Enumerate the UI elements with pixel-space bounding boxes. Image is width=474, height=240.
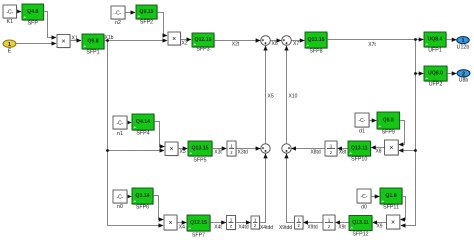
constant d1	[355, 113, 370, 135]
wire X8t	[338, 148, 348, 150]
svg-text:X8t: X8t	[339, 150, 347, 156]
svg-text:SFP: SFP	[28, 21, 39, 27]
svg-text:Q13.11: Q13.11	[351, 146, 368, 152]
junction node 1	[106, 39, 109, 42]
svg-text:X2t: X2t	[232, 42, 240, 48]
wire n0 to SFP6	[127, 196, 131, 198]
wire X4td	[236, 222, 251, 224]
wire SFP11 to X9 multiplier	[400, 197, 405, 220]
svg-text:1: 1	[298, 217, 301, 222]
svg-text:SFP10: SFP10	[351, 157, 367, 163]
wire X7t	[327, 39, 423, 41]
svg-text:-C-: -C-	[359, 118, 366, 124]
wire X9td	[303, 222, 323, 224]
svg-text:n0: n0	[117, 204, 123, 210]
fixed-point block SFP8	[305, 32, 328, 55]
svg-text:SFP5: SFP5	[193, 158, 206, 164]
sum junction S1	[261, 144, 270, 153]
svg-text:n2: n2	[115, 20, 121, 26]
svg-text:X9t: X9t	[338, 225, 346, 231]
svg-text:X5: X5	[268, 94, 274, 100]
svg-text:X3t: X3t	[214, 150, 222, 156]
svg-text:1: 1	[254, 217, 257, 222]
multiplier X8 product block	[385, 140, 399, 156]
wire X4	[177, 222, 186, 224]
svg-text:SFP12: SFP12	[352, 232, 368, 238]
svg-text:SFP7: SFP7	[192, 233, 205, 239]
wire E to X1 multiplier	[16, 43, 56, 45]
svg-text:×: ×	[391, 219, 395, 226]
wire bus to UFP2	[416, 73, 424, 75]
svg-text:Q9.8: Q9.8	[87, 39, 98, 45]
svg-text:SFP11: SFP11	[383, 205, 399, 211]
svg-text:K1: K1	[7, 19, 14, 25]
svg-text:SFP2: SFP2	[140, 20, 153, 26]
fixed-point block SFP6	[132, 188, 154, 211]
svg-text:×: ×	[389, 145, 393, 152]
fixed-point block SFP2	[136, 5, 158, 26]
svg-text:-C-: -C-	[117, 194, 124, 200]
svg-text:X8: X8	[375, 149, 381, 155]
wire SFP9 to X8 multiplier	[399, 121, 405, 145]
wire bus to X3 multiplier	[108, 150, 165, 152]
fixed-point block SFP3	[192, 33, 215, 53]
svg-text:X4tdd: X4tdd	[260, 225, 273, 231]
outport U12b oval	[457, 37, 470, 51]
constant K1	[3, 5, 17, 25]
svg-text:UQ8.4: UQ8.4	[428, 37, 443, 43]
fixed-point block SFP4	[132, 114, 155, 137]
constant d0	[357, 189, 372, 211]
svg-text:d1: d1	[359, 129, 365, 135]
multiplier X3 product block	[165, 142, 179, 156]
svg-text:1: 1	[230, 143, 233, 148]
wire X3	[178, 148, 187, 150]
svg-text:Q9.15: Q9.15	[139, 9, 153, 15]
wire K1 to SFP	[17, 11, 22, 13]
wire X5	[265, 46, 267, 144]
wire X7 to SFP8	[291, 40, 304, 42]
wire d0 to SFP11	[371, 196, 379, 198]
svg-text:Q3.14: Q3.14	[135, 193, 149, 199]
multiplier X1 product block	[57, 35, 71, 49]
wire SFP to X1 multiplier	[44, 12, 57, 38]
svg-text:SFP9: SFP9	[382, 130, 395, 136]
junction node 2	[106, 149, 109, 152]
wire X1	[70, 40, 81, 42]
unit delay 1/z D9b	[295, 216, 304, 230]
wire SFP4 to X3 multiplier	[154, 122, 164, 147]
wire SFP2 to X2 multiplier	[157, 13, 167, 36]
fixed-point block UFP2	[424, 66, 448, 88]
svg-text:n1: n1	[117, 131, 123, 137]
junction node 3	[414, 38, 417, 41]
svg-text:×: ×	[169, 146, 173, 153]
constant n1	[113, 116, 128, 137]
svg-text:X1: X1	[72, 35, 78, 41]
wire X9	[373, 222, 387, 224]
svg-text:X4t: X4t	[214, 225, 222, 231]
svg-text:1: 1	[328, 217, 331, 222]
svg-text:SFP6: SFP6	[136, 205, 149, 211]
svg-text:SFP8: SFP8	[309, 49, 322, 55]
svg-text:1: 1	[8, 42, 11, 48]
svg-text:Q13.15: Q13.15	[307, 37, 324, 43]
wire X4t	[210, 222, 226, 224]
fixed-point block SFP7	[187, 215, 211, 239]
svg-text:X2: X2	[182, 40, 188, 46]
svg-text:SFP3: SFP3	[196, 47, 209, 53]
wire bus to X8 multiplier	[399, 150, 416, 152]
wire n2 to SFP2	[125, 12, 135, 14]
wire X10	[286, 46, 288, 144]
svg-text:X10: X10	[289, 94, 298, 100]
svg-text:1: 1	[230, 217, 233, 222]
svg-text:UFP2: UFP2	[429, 82, 443, 88]
junction node 4	[414, 72, 417, 75]
wire UFP1 to U12b	[446, 39, 456, 41]
fixed-point block UFP1	[424, 32, 447, 54]
svg-text:UFP1: UFP1	[428, 48, 442, 54]
svg-text:-C-: -C-	[6, 9, 13, 15]
svg-text:X6: X6	[272, 41, 278, 47]
wire d1 to SFP9	[369, 120, 376, 122]
svg-text:-C-: -C-	[115, 10, 122, 16]
svg-text:Q13.15: Q13.15	[191, 146, 208, 152]
svg-text:X4: X4	[179, 225, 185, 231]
svg-text:×: ×	[61, 38, 65, 45]
svg-text:X9: X9	[376, 224, 382, 230]
svg-text:X7: X7	[293, 41, 299, 47]
wire X2t	[214, 40, 260, 42]
svg-text:X7t: X7t	[368, 42, 376, 48]
svg-text:Q1.8: Q1.8	[385, 193, 396, 199]
svg-text:E: E	[8, 49, 12, 55]
svg-text:Q4.8: Q4.8	[27, 9, 38, 15]
wire n1 to SFP4	[127, 122, 131, 124]
unit delay 1/z D8	[325, 141, 338, 157]
svg-text:1: 1	[461, 38, 464, 44]
wire X3td	[236, 148, 260, 150]
wire X3t	[212, 148, 226, 150]
fixed-point block SFP9	[377, 112, 400, 136]
svg-text:Q12.15: Q12.15	[194, 37, 211, 43]
wire X1b bus	[104, 40, 167, 42]
inport E oval	[3, 40, 16, 55]
wire X6 to X7	[270, 40, 281, 42]
sum junction X7c	[282, 36, 292, 46]
wire X1b vertical bus	[108, 41, 164, 226]
svg-text:U8b: U8b	[459, 78, 469, 84]
svg-text:UQ8.0: UQ8.0	[428, 71, 443, 77]
wire right bus down	[401, 40, 416, 226]
fixed-point block SFP5	[188, 141, 213, 164]
svg-text:-C-: -C-	[117, 120, 124, 126]
svg-text:SFP4: SFP4	[136, 131, 149, 137]
svg-text:2: 2	[462, 71, 465, 77]
wire SFP6 to X4 multiplier	[153, 196, 163, 220]
wire X2	[181, 39, 192, 41]
svg-text:X3: X3	[180, 149, 186, 155]
svg-text:×: ×	[168, 220, 172, 227]
sum junction X6c	[261, 36, 271, 46]
wire X9t	[336, 222, 349, 224]
svg-text:Q4.14: Q4.14	[136, 119, 150, 125]
svg-text:X9td: X9td	[307, 225, 318, 231]
fixed-point block SFP12	[349, 216, 373, 238]
multiplier X2 product block	[168, 32, 181, 46]
multiplier X4 product block	[164, 215, 178, 231]
outport U8b oval	[457, 70, 470, 84]
wire X4tdd riser	[260, 154, 266, 223]
svg-text:SFP1: SFP1	[86, 50, 99, 56]
wire X9tdd riser	[287, 154, 295, 223]
multiplier X9 product block	[387, 215, 401, 230]
unit delay 1/z D4a	[227, 216, 237, 231]
fixed-point block SFP11	[380, 188, 403, 211]
constant n2	[111, 6, 126, 26]
svg-text:d0: d0	[361, 205, 367, 211]
fixed-point block SFP1	[82, 34, 105, 56]
fixed-point block SFP10	[348, 141, 371, 163]
svg-text:X3td: X3td	[238, 150, 249, 156]
unit delay 1/z D3	[227, 141, 237, 157]
wire X8td	[291, 148, 325, 150]
svg-text:-C-: -C-	[361, 194, 368, 200]
junction node 5	[414, 149, 417, 152]
unit delay 1/z D4b	[251, 216, 260, 230]
wire UFP2 to U8b	[447, 73, 456, 75]
svg-text:Q8.8: Q8.8	[383, 118, 394, 124]
constant n0	[113, 190, 128, 210]
svg-text:X1b: X1b	[105, 35, 114, 41]
wire X8	[371, 147, 384, 149]
sum junction S2	[282, 144, 291, 153]
svg-text:Q12.15: Q12.15	[190, 220, 207, 226]
svg-text:1: 1	[330, 143, 333, 148]
svg-text:X9tdd: X9tdd	[279, 225, 292, 231]
svg-text:X4td: X4td	[238, 225, 249, 231]
svg-text:U12b: U12b	[457, 44, 470, 50]
svg-text:X8td: X8td	[310, 150, 321, 156]
svg-text:Q13.11: Q13.11	[352, 220, 369, 226]
svg-text:×: ×	[172, 36, 176, 43]
fixed-point block SFP	[22, 4, 44, 27]
unit delay 1/z D9a	[323, 215, 336, 231]
